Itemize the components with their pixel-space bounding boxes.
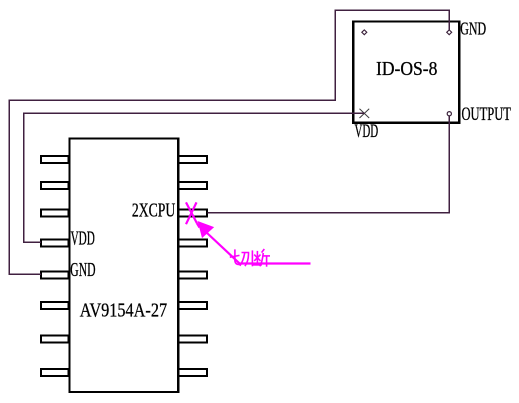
pin 1 left xyxy=(41,156,68,163)
svg-text:ID-OS-8: ID-OS-8 xyxy=(376,58,437,80)
pin 14 right 2XCPU xyxy=(179,210,208,217)
pin 11 right xyxy=(179,302,208,309)
pin 12 right xyxy=(179,272,208,279)
pin 6 left xyxy=(41,302,68,309)
pin 7 left xyxy=(41,336,68,343)
svg-text:OUTPUT: OUTPUT xyxy=(462,105,511,125)
pin 4 left VDD xyxy=(41,240,68,247)
pin 2 left xyxy=(41,182,68,189)
annotation arrow shaft xyxy=(207,233,311,264)
svg-text:VDD: VDD xyxy=(355,122,379,142)
pin 15 right xyxy=(179,182,208,189)
pin 16 right xyxy=(179,156,208,163)
IC U1 AV9154A-27 body xyxy=(70,139,179,393)
pin marker diamond (U2 top-left) xyxy=(362,30,367,35)
annotation text 切 xyxy=(230,249,249,266)
wire net VDD: U1 pin4 to U2 VDD xyxy=(24,113,365,242)
svg-text:2XCPU: 2XCPU xyxy=(132,200,176,222)
svg-text:GND: GND xyxy=(460,19,486,39)
pin marker x (U2 VDD pin) xyxy=(360,109,370,118)
pin marker circle (U2 OUTPUT pin) xyxy=(447,112,451,116)
pin 3 left xyxy=(41,210,68,217)
pin 10 right xyxy=(179,336,208,343)
svg-text:VDD: VDD xyxy=(71,227,95,249)
pin 5 left GND xyxy=(41,272,68,279)
svg-text:AV9154A-27: AV9154A-27 xyxy=(80,300,167,322)
pin 13 right xyxy=(179,240,208,247)
annotation arrow head xyxy=(198,222,213,237)
pin marker diamond (U2 GND pin) xyxy=(447,30,452,35)
svg-text:GND: GND xyxy=(70,259,95,281)
annotation text 断 xyxy=(252,249,270,267)
oscillator U2 ID-OS-8 box xyxy=(353,22,459,123)
wire net GND: U1 pin5 to U2 GND xyxy=(9,10,449,274)
wire net OUTPUT: U2 OUTPUT to U1 2XCPU xyxy=(208,116,450,213)
annotation cut mark X on 2XCPU pin xyxy=(186,202,200,227)
pin 9 right xyxy=(179,369,208,376)
pin 8 left xyxy=(41,369,68,376)
